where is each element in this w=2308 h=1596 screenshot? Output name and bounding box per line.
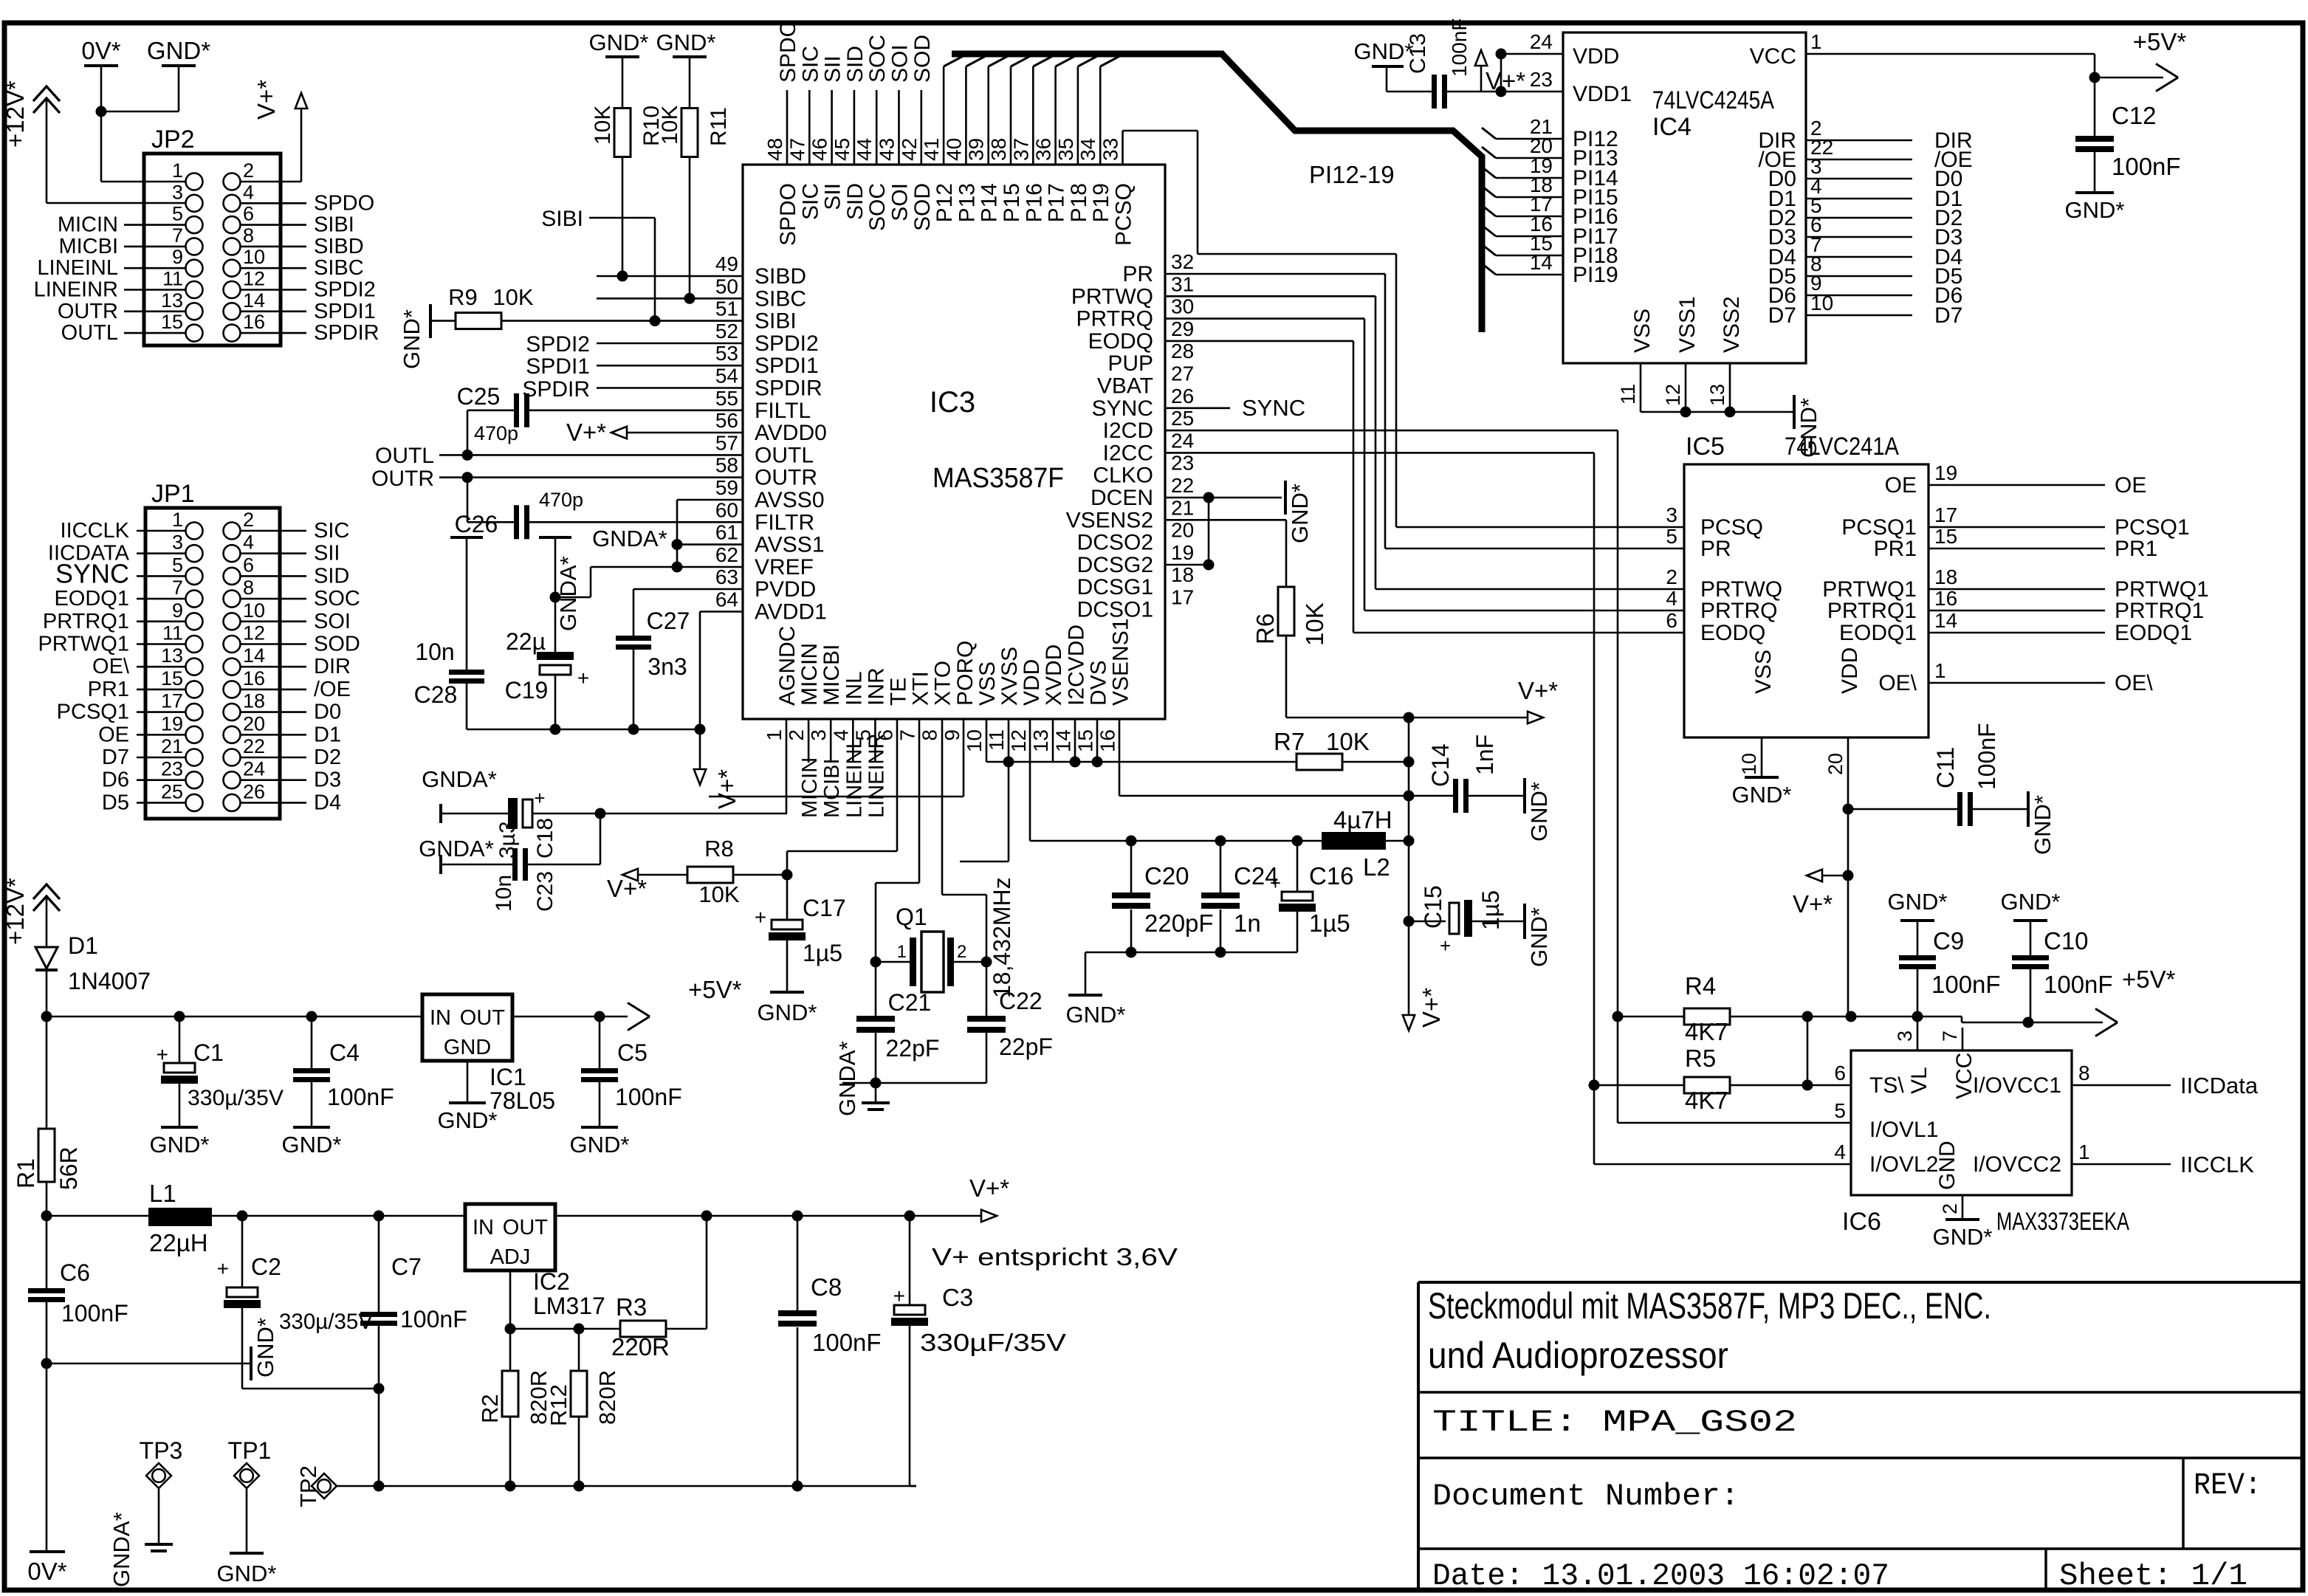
svg-text:TS\: TS\ <box>1869 1073 1904 1098</box>
svg-text:GND*: GND* <box>1526 907 1552 967</box>
svg-text:21: 21 <box>1171 496 1194 519</box>
svg-text:SPDIR: SPDIR <box>755 376 822 401</box>
svg-text:C3: C3 <box>942 1284 973 1311</box>
svg-text:74LVC241A: 74LVC241A <box>1785 433 1899 461</box>
svg-text:C10: C10 <box>2044 927 2089 954</box>
wire TE pin6 to R8 <box>896 719 899 851</box>
svg-text:GND*: GND* <box>2001 889 2061 915</box>
svg-text:AGNDC: AGNDC <box>775 626 800 706</box>
svg-text:D4: D4 <box>314 791 341 814</box>
svg-text:27: 27 <box>1171 362 1194 385</box>
svg-text:SYNC: SYNC <box>1242 395 1305 421</box>
svg-text:OE: OE <box>98 723 129 746</box>
svg-text:GND*: GND* <box>253 1318 278 1377</box>
svg-text:GND*: GND* <box>656 30 716 55</box>
svg-text:MICIN: MICIN <box>797 643 822 706</box>
svg-text:SID: SID <box>843 183 868 220</box>
wire +12V to JP2 pin3 <box>46 100 48 203</box>
svg-text:12: 12 <box>243 622 265 644</box>
IC5 pin 18 (PRTWQ1) <box>1929 588 2105 591</box>
svg-text:PORQ: PORQ <box>953 641 978 706</box>
svg-text:38: 38 <box>987 138 1010 161</box>
JP1 pin 20 <box>224 726 241 743</box>
svg-text:OUTL: OUTL <box>61 321 118 345</box>
JP2 pin 16 <box>224 325 241 342</box>
svg-text:28: 28 <box>1171 340 1194 362</box>
svg-text:Sheet: 1/1: Sheet: 1/1 <box>2059 1558 2247 1594</box>
svg-text:22pF: 22pF <box>999 1033 1053 1060</box>
svg-text:V+*: V+* <box>253 80 280 120</box>
svg-text:39: 39 <box>965 138 988 161</box>
V+* arrow analog rail <box>699 729 701 770</box>
IC5 box <box>1684 464 1929 737</box>
svg-text:1µ5: 1µ5 <box>1477 890 1504 930</box>
svg-text:100nF: 100nF <box>400 1306 467 1332</box>
svg-text:20: 20 <box>1171 519 1194 542</box>
JP1 pin 11 <box>186 636 203 653</box>
svg-text:100nF: 100nF <box>615 1084 682 1110</box>
svg-text:1n: 1n <box>1234 909 1261 937</box>
IC4 pin 19 (PI14) <box>1482 167 1496 178</box>
svg-text:C5: C5 <box>617 1039 648 1066</box>
wires IC4 VDD pins 24 23 <box>1501 53 1563 55</box>
svg-text:GND*: GND* <box>399 309 425 369</box>
svg-text:+12V*: +12V* <box>1 878 29 945</box>
JP2 pin 6 <box>224 216 241 233</box>
IC4 pin 9 (D6) <box>1806 295 1912 297</box>
svg-text:SOC: SOC <box>314 587 360 610</box>
JP2 stub LINEINL <box>124 267 185 269</box>
svg-text:1nF: 1nF <box>1471 735 1498 775</box>
svg-text:IC3: IC3 <box>930 386 975 419</box>
ADJ node rail <box>509 1270 512 1329</box>
svg-text:SPDI1: SPDI1 <box>526 354 590 379</box>
svg-text:C20: C20 <box>1144 862 1189 890</box>
JP1 stub D2 <box>241 757 306 759</box>
IC6 pin 8 I/OVCC1 to IICData <box>2072 1084 2171 1087</box>
resistor R8 10K <box>622 869 638 881</box>
svg-text:SOI: SOI <box>888 183 913 221</box>
IC6 pin 1 I/OVCC2 to IICCLK <box>2072 1163 2171 1166</box>
svg-text:PR1: PR1 <box>2115 537 2157 561</box>
svg-text:D7: D7 <box>102 746 129 769</box>
svg-text:EODQ1: EODQ1 <box>1839 621 1917 645</box>
IC4 pin 16 (PI17) <box>1482 225 1496 236</box>
JP1 stub PCSQ1 <box>137 711 185 713</box>
JP1 stub OE\ <box>137 666 185 668</box>
svg-text:22: 22 <box>243 735 265 757</box>
svg-text:C2: C2 <box>251 1253 281 1280</box>
svg-text:SYNC: SYNC <box>55 558 129 588</box>
svg-text:LM317: LM317 <box>533 1293 605 1319</box>
svg-text:VDD1: VDD1 <box>1573 82 1632 106</box>
svg-text:330µ/35V: 330µ/35V <box>279 1310 373 1334</box>
svg-text:42: 42 <box>898 138 921 161</box>
resistor R6 10K <box>1285 520 1288 587</box>
svg-text:20: 20 <box>1824 753 1847 775</box>
svg-text:GND*: GND* <box>147 37 210 64</box>
svg-text:VDD: VDD <box>1020 659 1044 706</box>
svg-text:+: + <box>1440 935 1451 957</box>
JP1 pin 21 <box>186 749 203 766</box>
svg-text:C4: C4 <box>329 1039 360 1066</box>
svg-text:IC4: IC4 <box>1652 113 1691 141</box>
svg-text:REV:: REV: <box>2194 1468 2261 1503</box>
svg-text:37: 37 <box>1009 138 1032 161</box>
svg-text:78L05: 78L05 <box>490 1087 555 1114</box>
svg-text:29: 29 <box>1171 317 1194 340</box>
svg-text:R7: R7 <box>1274 728 1305 755</box>
+5V rail jog and arrow <box>1961 1017 1963 1022</box>
svg-text:MCIBI: MCIBI <box>820 758 844 818</box>
svg-text:100nF: 100nF <box>327 1084 394 1110</box>
svg-text:10: 10 <box>963 729 986 752</box>
svg-text:GND*: GND* <box>282 1132 342 1158</box>
svg-text:34: 34 <box>1076 138 1099 161</box>
JP1 stub PRTRQ1 <box>137 620 185 622</box>
IC2 LM317 <box>465 1204 555 1270</box>
svg-text:PRTWQ1: PRTWQ1 <box>38 633 129 656</box>
svg-text:1µ5: 1µ5 <box>1309 909 1350 937</box>
svg-text:LINEINR: LINEINR <box>34 278 118 302</box>
svg-text:GND*: GND* <box>1526 782 1552 842</box>
svg-text:58: 58 <box>715 454 738 477</box>
IC4 pin 15 (PI18) <box>1482 244 1496 255</box>
svg-text:16: 16 <box>243 311 265 333</box>
svg-text:24: 24 <box>1530 30 1553 53</box>
svg-text:56: 56 <box>715 409 738 432</box>
svg-text:8: 8 <box>243 577 254 599</box>
svg-text:SPDI1: SPDI1 <box>755 354 819 378</box>
svg-text:1: 1 <box>1934 659 1946 682</box>
JP2 pin 10 <box>224 260 241 277</box>
IC6 pin 3 VL <box>1917 1017 1919 1050</box>
svg-text:C19: C19 <box>505 677 549 704</box>
JP1 pin 12 <box>224 636 241 653</box>
svg-text:23: 23 <box>161 758 183 780</box>
svg-text:8: 8 <box>918 729 941 741</box>
svg-text:2: 2 <box>243 509 254 531</box>
svg-text:7: 7 <box>896 729 919 741</box>
svg-text:P13: P13 <box>955 183 979 222</box>
svg-text:+: + <box>534 787 545 809</box>
svg-text:100nF: 100nF <box>61 1300 128 1327</box>
svg-text:INL: INL <box>842 671 866 706</box>
svg-text:5: 5 <box>1666 525 1677 548</box>
svg-text:L2: L2 <box>1363 853 1390 881</box>
JP1 stub SOC <box>241 598 306 600</box>
svg-text:VSS: VSS <box>1751 650 1776 694</box>
svg-text:GND*: GND* <box>1287 484 1313 543</box>
svg-text:VSS: VSS <box>1630 309 1655 353</box>
svg-text:OE: OE <box>2115 473 2146 498</box>
svg-text:P15: P15 <box>1000 183 1024 222</box>
JP2 stub SIBC <box>241 267 306 269</box>
JP1 pin 17 <box>186 704 203 720</box>
svg-text:C7: C7 <box>391 1253 422 1280</box>
svg-text:V+*: V+* <box>713 769 741 809</box>
svg-text:13: 13 <box>161 644 183 667</box>
svg-text:SIBD: SIBD <box>314 235 364 258</box>
svg-text:Q1: Q1 <box>896 904 927 930</box>
svg-text:SOI: SOI <box>314 610 351 633</box>
JP2 pin 5 <box>186 216 203 233</box>
svg-text:OE: OE <box>1885 473 1917 498</box>
resistor R11 10K <box>689 56 691 109</box>
svg-text:R5: R5 <box>1685 1045 1716 1072</box>
JP2 stub OUTL <box>124 332 185 334</box>
svg-text:V+*: V+* <box>1518 677 1558 704</box>
JP1 pin 4 <box>224 545 241 562</box>
svg-text:4: 4 <box>243 181 254 203</box>
svg-text:GNDA*: GNDA* <box>109 1512 134 1587</box>
svg-text:6: 6 <box>1834 1062 1846 1084</box>
svg-text:4: 4 <box>1834 1141 1846 1163</box>
JP2 pin 13 <box>186 303 203 320</box>
IC5 pin 14 (EODQ1) <box>1929 632 2105 634</box>
svg-text:GNDA*: GNDA* <box>834 1041 860 1116</box>
svg-text:PRTRQ: PRTRQ <box>1076 307 1153 331</box>
svg-text:OUTL: OUTL <box>755 443 814 467</box>
svg-text:63: 63 <box>715 565 738 588</box>
svg-text:PRTRQ1: PRTRQ1 <box>1827 599 1917 623</box>
JP1 stub SIC <box>241 530 306 532</box>
svg-text:VCC: VCC <box>1750 44 1796 69</box>
svg-text:470p: 470p <box>539 489 583 511</box>
svg-text:Steckmodul mit MAS3587F, MP3 D: Steckmodul mit MAS3587F, MP3 DEC., ENC. <box>1428 1285 1991 1327</box>
svg-text:10K: 10K <box>492 284 533 310</box>
svg-text:AVSS1: AVSS1 <box>755 533 825 557</box>
svg-text:+: + <box>755 906 766 929</box>
svg-text:10: 10 <box>243 599 265 622</box>
resistor R1 56R <box>46 1017 48 1129</box>
wire SIBD pin49 <box>597 275 743 278</box>
JP1 stub SYNC <box>137 575 185 577</box>
wire C6 to 0V <box>46 1363 48 1550</box>
svg-text:10: 10 <box>1810 292 1833 314</box>
svg-text:SOI: SOI <box>888 44 913 83</box>
svg-text:SII: SII <box>314 542 340 565</box>
svg-text:100nF: 100nF <box>1974 723 2000 790</box>
wire pin11 to GND <box>1008 762 1010 861</box>
JP2 pin 4 <box>224 195 241 212</box>
JP1 pin 1 <box>186 523 203 540</box>
svg-text:57: 57 <box>715 431 738 454</box>
svg-text:1: 1 <box>172 509 183 531</box>
svg-text:L1: L1 <box>149 1180 176 1207</box>
svg-text:18: 18 <box>243 690 265 712</box>
svg-text:XTI: XTI <box>909 671 933 706</box>
svg-text:MICBI: MICBI <box>820 644 844 706</box>
wire PRTRQ pin30 to IC5 <box>1165 317 1364 320</box>
IC5 pin 17 (PCSQ1) <box>1929 526 2105 529</box>
svg-text:CLKO: CLKO <box>1093 464 1153 488</box>
JP1 stub D3 <box>241 779 306 781</box>
svg-text:15: 15 <box>1074 729 1096 752</box>
svg-text:100nF: 100nF <box>1448 18 1471 77</box>
svg-text:GND: GND <box>1935 1141 1960 1190</box>
svg-text:9: 9 <box>172 599 183 622</box>
svg-text:24: 24 <box>243 758 265 780</box>
svg-text:R4: R4 <box>1685 972 1716 1000</box>
IC4 pin 7 (D4) <box>1806 256 1912 258</box>
svg-text:26: 26 <box>243 780 265 802</box>
svg-text:EODQ: EODQ <box>1700 621 1765 645</box>
svg-text:IC1: IC1 <box>490 1064 526 1090</box>
wire VDD pin12 rail to L2 <box>1029 719 1031 841</box>
svg-text:C25: C25 <box>457 383 501 410</box>
svg-text:P17: P17 <box>1045 183 1069 222</box>
svg-text:OE\: OE\ <box>2115 671 2153 695</box>
svg-text:C13: C13 <box>1406 33 1430 74</box>
V+ vertical rail right of L2 <box>1408 718 1410 1016</box>
svg-text:SID: SID <box>314 564 349 588</box>
IC4 pin 21 (PI12) <box>1482 128 1496 139</box>
svg-text:330µF/35V: 330µF/35V <box>920 1329 1066 1356</box>
svg-text:EODQ1: EODQ1 <box>54 587 129 610</box>
svg-text:SPDIR: SPDIR <box>522 377 590 402</box>
svg-text:PCSQ1: PCSQ1 <box>57 701 129 724</box>
+5V rail from IC1 <box>512 1016 628 1018</box>
svg-text:7: 7 <box>172 577 183 599</box>
svg-text:P14: P14 <box>978 183 1002 222</box>
svg-text:GND*: GND* <box>217 1561 277 1586</box>
JP1 pin 7 <box>186 591 203 608</box>
svg-text:INR: INR <box>864 667 888 706</box>
svg-text:PUP: PUP <box>1107 351 1153 376</box>
svg-text:AVSS0: AVSS0 <box>755 488 825 512</box>
svg-text:13: 13 <box>1029 729 1052 752</box>
svg-text:VDD: VDD <box>1573 44 1619 69</box>
svg-text:EODQ1: EODQ1 <box>2115 621 2192 645</box>
IC4 pin 10 (D7) <box>1806 314 1912 317</box>
svg-text:VBAT: VBAT <box>1097 374 1153 399</box>
wire DCSG2 pin19 <box>1165 564 1209 566</box>
svg-text:C17: C17 <box>803 895 846 921</box>
svg-text:14: 14 <box>243 289 265 312</box>
svg-text:DVS: DVS <box>1086 660 1110 706</box>
svg-text:12: 12 <box>243 268 265 290</box>
svg-text:41: 41 <box>920 138 943 161</box>
svg-text:D5: D5 <box>102 791 129 814</box>
svg-text:2: 2 <box>785 729 808 741</box>
svg-text:18,432MHz: 18,432MHz <box>989 877 1015 998</box>
JP1 stub /OE <box>241 689 306 691</box>
wire VSENS1 pin16 to C14 rail <box>1119 762 1121 796</box>
svg-text:SIBI: SIBI <box>314 213 354 237</box>
JP1 stub SID <box>241 575 306 577</box>
svg-text:GNDA*: GNDA* <box>555 556 581 631</box>
svg-text:19: 19 <box>1171 541 1194 564</box>
JP1 stub D5 <box>137 802 185 804</box>
svg-text:VL: VL <box>1907 1067 1931 1094</box>
svg-text:VSS2: VSS2 <box>1720 296 1744 353</box>
svg-text:C16: C16 <box>1309 862 1354 890</box>
svg-text:GND*: GND* <box>438 1107 498 1133</box>
JP1 stub SOD <box>241 643 306 645</box>
svg-text:8: 8 <box>2078 1062 2090 1084</box>
svg-text:SOC: SOC <box>865 183 890 231</box>
svg-text:17: 17 <box>1171 586 1194 609</box>
svg-text:+5V*: +5V* <box>2133 28 2187 55</box>
IC4 pin 20 (PI13) <box>1482 147 1496 158</box>
svg-text:DCSG1: DCSG1 <box>1077 575 1153 599</box>
wire PR pin32 to IC5 <box>1165 273 1385 275</box>
svg-text:51: 51 <box>715 297 738 320</box>
svg-text:3: 3 <box>1666 503 1677 526</box>
svg-text:13: 13 <box>161 289 183 312</box>
svg-text:11: 11 <box>162 622 183 644</box>
GND* symbol right of C6 <box>47 1363 251 1365</box>
svg-text:10: 10 <box>1738 753 1760 775</box>
svg-text:SOD: SOD <box>314 633 360 656</box>
svg-text:R9: R9 <box>448 284 478 310</box>
JP1 pin 2 <box>224 523 241 540</box>
svg-text:55: 55 <box>715 387 738 410</box>
JP2 pin 2 <box>224 173 241 190</box>
svg-text:31: 31 <box>1171 272 1194 295</box>
svg-text:GNDA*: GNDA* <box>422 766 497 792</box>
svg-text:SPDO: SPDO <box>776 183 800 246</box>
svg-text:2: 2 <box>1939 1203 1961 1214</box>
resistor R10 10K <box>622 56 624 109</box>
svg-text:5: 5 <box>1834 1099 1846 1122</box>
svg-text:IN: IN <box>473 1216 494 1239</box>
IC4 pin 4 (D1) <box>1806 198 1912 200</box>
wire SIBC pin50 <box>597 297 743 300</box>
svg-text:8: 8 <box>243 224 254 247</box>
svg-text:R12: R12 <box>546 1384 571 1426</box>
svg-text:5: 5 <box>172 554 183 576</box>
svg-text:4µ7H: 4µ7H <box>1333 806 1392 833</box>
svg-text:16: 16 <box>243 667 265 689</box>
svg-text:SPDI2: SPDI2 <box>314 278 376 302</box>
svg-text:C1: C1 <box>193 1039 224 1066</box>
JP1 stub D4 <box>241 802 306 804</box>
JP1 stub IICDATA <box>137 552 185 554</box>
JP2 pin 8 <box>224 238 241 255</box>
svg-text:3: 3 <box>172 532 183 554</box>
JP1 pin 5 <box>186 568 203 585</box>
svg-text:SPDO: SPDO <box>776 20 800 83</box>
svg-text:59: 59 <box>715 476 738 499</box>
JP1 stub DIR <box>241 666 306 668</box>
JP2 pin 14 <box>224 303 241 320</box>
svg-text:PR1: PR1 <box>1874 537 1917 561</box>
svg-text:48: 48 <box>763 138 786 161</box>
JP1 pin 26 <box>224 794 241 811</box>
svg-text:XVSS: XVSS <box>997 647 1022 706</box>
svg-text:R1: R1 <box>13 1158 39 1189</box>
svg-text:V+*: V+* <box>566 419 606 446</box>
svg-text:SIBD: SIBD <box>755 264 806 289</box>
connector JP2 <box>144 154 281 345</box>
IC4 pin 1 VCC wire to +5V and C12 <box>1806 53 2095 55</box>
svg-text:D1: D1 <box>314 723 341 746</box>
svg-text:D7: D7 <box>1768 303 1796 328</box>
svg-text:220R: 220R <box>611 1333 670 1361</box>
svg-text:IC5: IC5 <box>1686 433 1725 461</box>
connector JP1 <box>145 508 280 819</box>
svg-text:24: 24 <box>1171 429 1194 452</box>
JP1 pin 3 <box>186 545 203 562</box>
svg-text:D0: D0 <box>314 701 341 724</box>
svg-text:GND*: GND* <box>570 1132 630 1158</box>
svg-text:9: 9 <box>941 729 964 741</box>
svg-text:DCSO1: DCSO1 <box>1077 598 1153 622</box>
svg-text:C26: C26 <box>455 511 498 537</box>
JP1 pin 10 <box>224 613 241 630</box>
